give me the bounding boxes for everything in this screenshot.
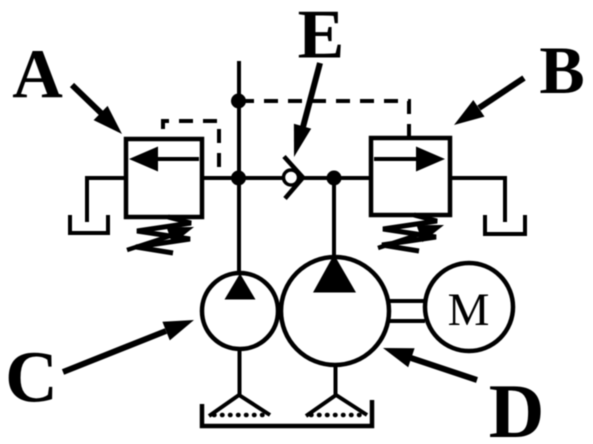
valve A internal arrow [129,147,199,172]
valve B drain line to tank [450,178,505,222]
relief valve A body [126,139,202,217]
valve B spring [382,215,437,251]
tank symbol right [485,215,525,234]
valve A spring adjust arrow [127,227,194,250]
wire: vertical line to pump D [332,178,336,258]
pilot line (dashed) valve B [239,101,410,138]
strainer under pump D [306,395,367,416]
check valve E ball [284,170,299,185]
leader arrow to pump C [63,320,194,372]
relief valve B body [371,138,450,215]
motor M circle [425,263,513,351]
pump D circle [281,257,389,365]
svg-text:M: M [448,284,490,336]
strainer C dotted screen [214,413,265,418]
strainer D dotted screen [311,413,362,418]
svg-text:D: D [489,368,545,444]
wire: pump D suction [334,365,338,396]
leader arrow to valve A [72,85,122,134]
pump D flow triangle [313,255,356,293]
shaft coupling lines [387,299,425,303]
wire: main horizontal line between valves [202,176,371,180]
node: junction dot right [327,171,342,186]
leader arrow to check valve E [294,63,320,157]
leader arrow to valve B [454,78,524,125]
pump C flow triangle [225,274,256,300]
svg-text:B: B [539,32,584,108]
leader arrow to pump D [383,348,477,380]
tank symbol left [70,215,108,233]
strainer under pump C [209,395,270,416]
reservoir tank bottom [202,400,372,426]
valve A spring [136,217,191,253]
valve A drain line to tank [87,178,126,222]
check valve E seat [284,157,303,199]
valve B spring adjust arrow [378,225,444,248]
wire: pump C suction [238,349,242,396]
svg-text:A: A [12,37,63,114]
pump C circle [202,273,278,349]
svg-text:C: C [5,337,58,418]
node: junction dot top [231,94,246,109]
pilot line (dashed) valve A [163,121,219,178]
wire: center vertical supply line [237,61,241,274]
svg-text:E: E [298,0,345,74]
node: junction dot left [231,171,246,186]
valve B internal arrow [374,147,445,172]
